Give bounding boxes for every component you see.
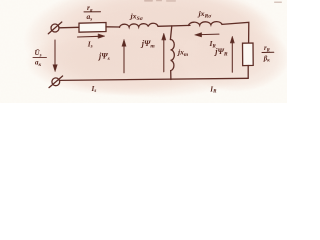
inductor jx_Ss (stator leakage coil) — [120, 23, 159, 27]
resistor r_a (stator resistance box) — [79, 23, 106, 33]
node / stub down to magnetizing coil — [170, 26, 171, 40]
value label r_R / beta_K — [262, 45, 274, 64]
paper background — [0, 0, 287, 103]
terminal (stator, top-left) — [48, 22, 62, 34]
current I_S arrow (top-left) — [78, 34, 106, 39]
voltage arrow U_S/a (down) — [53, 40, 57, 72]
bottom rail wire — [60, 78, 249, 80]
label U_S/a_k — [33, 49, 47, 68]
wire to top-right corner — [222, 22, 249, 43]
inductor jx_m (magnetizing coil, vertical) — [170, 39, 174, 70]
value label r_a/a_s — [84, 3, 101, 23]
wire from coil to bottom rail — [170, 71, 172, 80]
wire from resistor to bottom rail — [247, 66, 249, 79]
wire with node to magnetizing branch — [158, 24, 190, 27]
current I_R arrow (top-right, pointing left) — [195, 33, 220, 37]
inductor jx_Rs (rotor leakage coil) — [189, 22, 223, 26]
terminal (stator, bottom-left) — [49, 76, 63, 88]
wire — [106, 26, 120, 28]
flux arrow j&Psi;_R (up) — [230, 36, 234, 72]
flux arrow j&Psi;_S (up) — [122, 39, 126, 73]
resistor r_R (rotor resistance box, vertical) — [243, 43, 254, 66]
flux arrow j&Psi;_m (up) — [162, 33, 166, 72]
wire — [59, 26, 79, 29]
faint scan specks along top edge — [144, 0, 282, 3]
